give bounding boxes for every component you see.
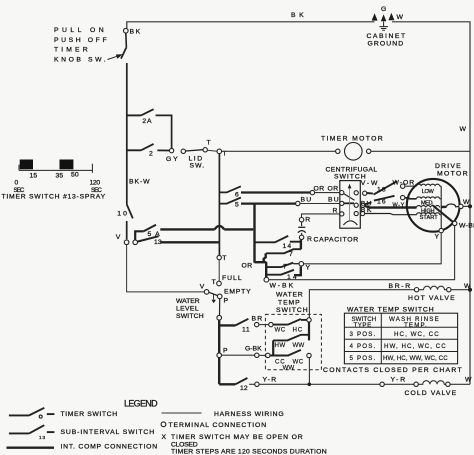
svg-text:WW: WW [293, 342, 305, 349]
svg-text:WATER: WATER [276, 292, 303, 299]
svg-text:MOTOR: MOTOR [437, 171, 468, 178]
svg-text:TIMER MOTOR: TIMER MOTOR [321, 136, 383, 143]
svg-text:BK: BK [130, 29, 141, 36]
svg-text:HARNESS WIRING: HARNESS WIRING [214, 411, 284, 418]
svg-text:Y-R: Y-R [391, 377, 406, 384]
svg-text:TIMER SWITCH: TIMER SWITCH [61, 411, 118, 418]
svg-text:WATER TEMP SWITCH: WATER TEMP SWITCH [347, 307, 434, 314]
svg-text:CAPACITOR: CAPACITOR [314, 237, 359, 244]
svg-text:6: 6 [235, 191, 239, 198]
svg-text:COLD VALVE: COLD VALVE [405, 390, 457, 397]
svg-text:P: P [224, 298, 229, 305]
svg-text:HW, HC, WW, WC, CC: HW, HC, WW, WC, CC [383, 355, 448, 362]
svg-text:SUB-INTERVAL SWITCH: SUB-INTERVAL SWITCH [61, 429, 155, 436]
svg-text:0: 0 [15, 180, 19, 187]
svg-text:Y: Y [306, 265, 311, 272]
svg-text:CONTACTS CLOSED PER CHART: CONTACTS CLOSED PER CHART [323, 367, 462, 374]
svg-text:TYPE: TYPE [354, 322, 372, 329]
svg-text:PUSH OFF: PUSH OFF [54, 37, 107, 44]
svg-text:5: 5 [235, 201, 239, 208]
svg-text:CENTRIFUGAL: CENTRIFUGAL [326, 167, 378, 174]
svg-text:SWITCH: SWITCH [176, 313, 204, 320]
svg-text:W: W [460, 126, 467, 133]
svg-text:4 POS.: 4 POS. [350, 343, 376, 350]
svg-text:W: W [465, 377, 472, 384]
svg-text:P: P [223, 348, 228, 355]
svg-text:Y: Y [435, 233, 440, 240]
svg-text:CLOSED: CLOSED [171, 442, 198, 449]
svg-text:W: W [464, 283, 471, 290]
svg-text:EMPTY: EMPTY [224, 289, 251, 296]
svg-text:T: T [207, 139, 212, 146]
svg-text:14: 14 [283, 243, 292, 250]
svg-text:BR-R: BR-R [389, 283, 411, 290]
svg-text:DRIVE: DRIVE [435, 163, 461, 170]
svg-text:OR: OR [314, 186, 325, 193]
svg-text:LID: LID [189, 156, 203, 163]
svg-text:KNOB SW.: KNOB SW. [54, 57, 106, 64]
svg-text:TIMER SWITCH MAY BE OPEN OR: TIMER SWITCH MAY BE OPEN OR [171, 434, 303, 441]
svg-text:CABINET: CABINET [367, 33, 406, 40]
svg-text:WW: WW [283, 365, 295, 372]
svg-text:HW: HW [275, 342, 286, 349]
svg-text:7: 7 [283, 264, 287, 271]
svg-text:W: W [397, 14, 404, 21]
svg-text:V-W: V-W [361, 180, 378, 187]
svg-text:3 POS.: 3 POS. [350, 331, 376, 338]
svg-text:HC, WC, CC: HC, WC, CC [394, 331, 439, 338]
svg-text:BR: BR [252, 316, 263, 323]
svg-text:35: 35 [56, 173, 64, 180]
svg-text:V: V [200, 284, 205, 291]
svg-text:START: START [420, 215, 439, 221]
svg-text:16: 16 [377, 199, 386, 206]
svg-text:HIGH: HIGH [421, 208, 435, 214]
svg-text:G-BK: G-BK [245, 346, 262, 353]
svg-text:INT. COMP CONNECTION: INT. COMP CONNECTION [61, 444, 158, 451]
svg-text:R: R [333, 208, 338, 215]
svg-text:5 POS.: 5 POS. [350, 355, 376, 362]
svg-text:WATER: WATER [176, 298, 200, 305]
svg-text:13: 13 [39, 435, 45, 440]
svg-text:TIMER SWITCH #13-SPRAY: TIMER SWITCH #13-SPRAY [2, 194, 106, 201]
svg-text:LOW: LOW [422, 189, 435, 195]
svg-text:WC: WC [275, 327, 286, 334]
svg-text:G: G [381, 6, 387, 13]
svg-text:R: R [305, 217, 310, 224]
svg-text:W-BK: W-BK [459, 223, 474, 230]
svg-text:120: 120 [90, 180, 101, 187]
svg-text:TERMINAL CONNECTION: TERMINAL CONNECTION [169, 422, 267, 429]
svg-text:SWITCH: SWITCH [276, 307, 308, 314]
svg-text:T: T [212, 279, 217, 286]
svg-text:BU: BU [328, 197, 339, 204]
svg-text:18: 18 [377, 187, 386, 194]
svg-text:V: V [116, 234, 121, 241]
svg-text:TEMP: TEMP [278, 300, 300, 307]
svg-text:FULL: FULL [222, 275, 242, 282]
svg-text:15: 15 [30, 173, 38, 180]
svg-text:SW.: SW. [190, 163, 205, 170]
svg-text:T: T [222, 255, 227, 262]
svg-text:11: 11 [242, 327, 250, 334]
svg-text:12: 12 [240, 385, 248, 392]
svg-text:OR: OR [328, 186, 339, 193]
svg-text:10: 10 [117, 211, 127, 218]
svg-text:OR: OR [242, 263, 253, 270]
svg-text:LEVEL: LEVEL [176, 306, 199, 313]
svg-text:TEMP.: TEMP. [404, 322, 427, 329]
svg-text:50: 50 [71, 172, 79, 179]
svg-text:X: X [162, 434, 167, 441]
svg-text:TIMER STEPS ARE 120 SECONDS DU: TIMER STEPS ARE 120 SECONDS DURATION [171, 449, 327, 455]
svg-text:LEGEND: LEGEND [124, 399, 158, 409]
svg-text:BK-W: BK-W [129, 179, 150, 186]
svg-text:Y-R: Y-R [263, 377, 277, 384]
svg-text:GROUND: GROUND [368, 41, 404, 48]
svg-text:HC: HC [293, 327, 303, 334]
svg-text:2: 2 [149, 150, 153, 157]
svg-text:HW, HC, WC, CC: HW, HC, WC, CC [384, 343, 446, 350]
svg-text:2A: 2A [142, 118, 152, 125]
svg-text:R: R [307, 236, 312, 243]
svg-text:BU: BU [301, 197, 312, 204]
svg-text:HOT VALVE: HOT VALVE [408, 295, 455, 302]
svg-text:7: 7 [289, 251, 293, 258]
svg-text:W-BK: W-BK [270, 283, 294, 290]
